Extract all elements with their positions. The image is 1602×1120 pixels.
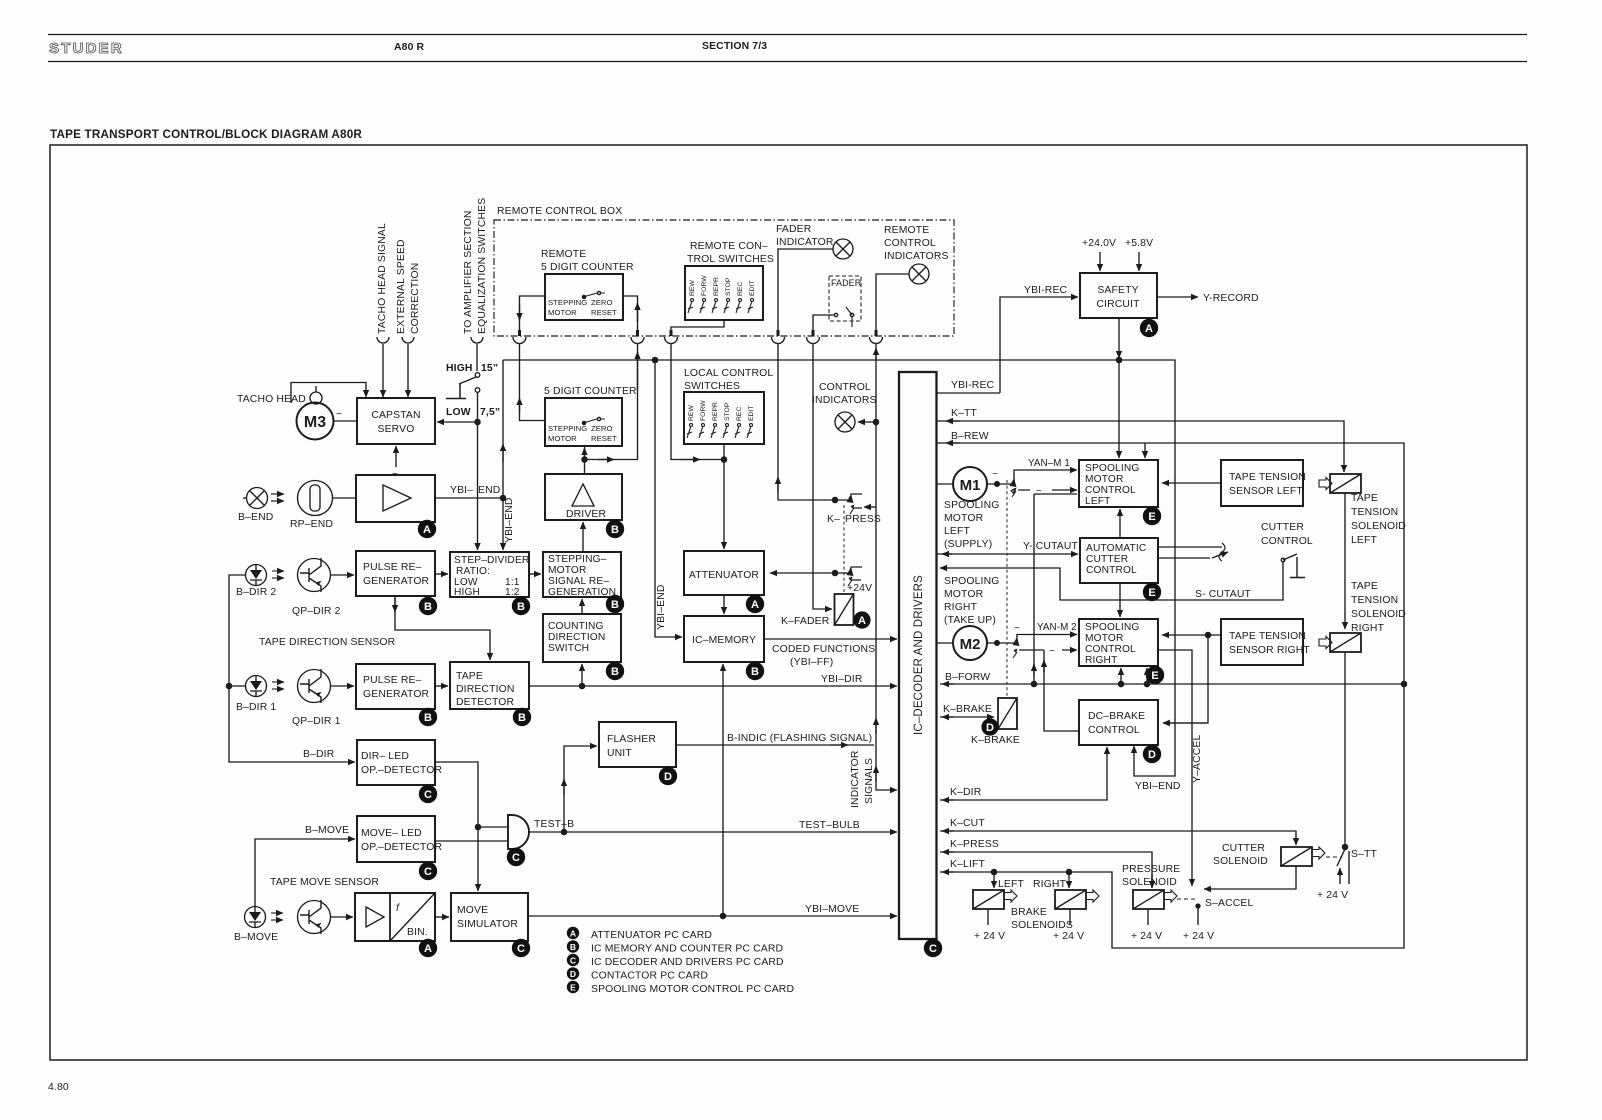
s-accel contact stub [1196,904,1200,908]
remote switch bank labels and contacts [689,275,756,296]
wire risers into spooling right bottom [1120,668,1122,684]
label TAPE MOVE SENSOR [270,877,379,888]
light arrows B-END to RP-END [271,493,284,495]
connector remote switches [665,337,678,344]
connector remote counter left [513,337,526,344]
label 15" [481,363,498,374]
local switch bank labels and contacts [688,400,755,421]
wire M2 to spooling control right [987,635,1077,644]
amplifier A (end sensor) [356,475,435,522]
svg-text:+ 24 V: + 24 V [1131,931,1162,942]
block TAPE DIRECTION DETECTOR [450,662,529,709]
wire B-DIR label [303,749,335,760]
svg-text:CUTTER: CUTTER [1222,843,1265,854]
wire fader switch to connector [813,315,834,334]
motor M2 [953,626,987,660]
dashed S-ACCEL link [1177,898,1196,900]
wire K-PRESS [940,852,1152,888]
connector fader switch line [807,337,820,344]
block ATTENUATOR [684,551,764,595]
badge A safety [1140,319,1158,337]
block 5 DIGIT COUNTER (local) [544,386,637,397]
badge B detector [513,708,531,726]
wire K-CUT [940,831,1296,845]
contact K-PRESS [851,494,862,508]
speed switch HIGH contact [475,373,480,378]
wire indicator signals vertical [876,344,897,790]
speed switch pole lead [446,384,466,399]
wire YBI-END amp output [435,497,503,499]
wire remote counter right lead [623,296,638,330]
wire YBI-DIR detector to decoder [529,685,897,687]
wire YBI-END bus [503,359,1119,361]
wire b-dir2 left bus [229,575,355,762]
wire k-press contact to indicator line [864,506,876,508]
svg-text:D: D [986,722,994,734]
badge C gate [507,848,525,866]
AND gate TEST-B [508,815,529,849]
light arrows b-move [271,912,283,914]
wire sensor right to spooling right [1162,634,1221,636]
node ybi-move to ic-memory branch [720,913,725,918]
badge E spooling left [1143,507,1161,525]
badge C ic-decoder [924,939,942,957]
connector tacho head signal [377,337,389,343]
svg-text:+ 24 V: + 24 V [974,931,1005,942]
wire qp-dir1 to pulse regen [331,685,355,687]
block DIR-LED OP.-DETECTOR [357,740,435,785]
wire +5.8V into safety [1138,252,1140,271]
connector remote counter right [631,337,644,344]
wire ext speed down to capstan servo [407,344,409,397]
badge D flasher [659,767,677,785]
badge A k-fader [853,611,870,628]
block STEPPING-MOTOR SIGNAL RE-GENERATION [543,552,621,597]
wire branch up to counting switch [581,664,583,686]
wire K-BRAKE [940,716,994,718]
wire qp-dir2 to pulse regen [331,574,355,576]
svg-text:S–TT: S–TT [1351,849,1378,860]
connector external speed correction [402,337,414,343]
badge A attenuator card [418,520,436,538]
wire YBI-REC decoder output [937,392,1001,394]
node b-forw risers [1118,681,1123,686]
header top rule [48,34,1527,36]
speed switch LOW contact [475,388,480,393]
wire mains into capstan servo bottom [395,446,397,467]
wire YBI-END down to step-divider [502,498,504,550]
S-TT switch [1337,849,1349,884]
node YBI-END junction [500,495,505,500]
node speed/capstan junction [475,419,480,424]
cutter solenoid [1281,847,1312,866]
light arrows b-dir2 [272,570,284,572]
svg-text:K–DIR: K–DIR [950,787,982,798]
wire counting switch to stepping regen [581,599,583,614]
svg-text:B–FORW: B–FORW [945,672,990,683]
wire LOW contact down to junction [477,392,479,422]
wire B-INDIC flasher to indicator line [676,744,874,746]
badge B stepping regen [606,595,624,613]
relay K-FADER [835,594,854,625]
wire bus down to ic-memory [655,360,682,637]
wire junction to capstan servo right [437,421,478,423]
badge C move simulator [512,939,530,957]
svg-text:LEFT: LEFT [998,879,1025,890]
block IC-DECODER AND DRIVERS [899,372,937,939]
wire YBI-MOVE to decoder [528,915,897,917]
svg-text:+ 24 V: + 24 V [1053,931,1084,942]
wire step divider to stepping regen [529,573,541,575]
label CUTTER CONTROL [1261,522,1313,547]
wire sensor left to spooling left [1162,482,1221,484]
wire bus corner down right side [1119,360,1175,776]
svg-text:+ 24 V: + 24 V [1183,931,1214,942]
svg-text:S–ACCEL: S–ACCEL [1205,898,1253,909]
wire feeds down into brake solenoids [993,872,995,888]
solenoid TAPE TENSION LEFT [1330,474,1361,493]
block DC-BRAKE CONTROL [1079,700,1158,745]
badge D dc-brake [1143,745,1161,763]
label TAPE DIRECTION SENSOR [259,637,396,648]
block DRIVER [545,474,622,520]
motor M1 [953,467,987,501]
wire RP-END to amplifier [333,497,357,499]
FADER switch dashed box [829,276,861,321]
motor M3 [297,403,334,440]
light arrows b-dir1 [272,681,284,683]
wire gate line down to move simulator [477,827,479,891]
node S-TT [1342,844,1347,849]
label LOW [446,407,471,418]
wire sensor right down to dc-brake [1163,635,1208,723]
reset switch glyph remote counter [583,293,605,297]
label TACHO HEAD [237,394,306,405]
wire fader connector down to k-fader [813,344,832,609]
wire cutter solenoid bottom to s-accel [1204,866,1296,889]
dashed link k-press to k-fader [843,505,845,592]
svg-text:SOLENOIDS: SOLENOIDS [1011,920,1073,931]
wire fader indicator to connector [778,249,833,334]
cutter control switch [1281,558,1285,562]
LED B-MOVE [245,907,266,928]
node b-dir junction [226,683,231,688]
wire solenoid right down to S-TT [1344,652,1346,847]
badge B counting switch [606,662,624,680]
wire tacho signal down to capstan servo [382,344,384,397]
phototransistor QP-DIR 1 [298,670,331,703]
wire B-REW across right [937,443,1405,684]
lamp CONTROL INDICATORS [812,382,877,406]
wire Y-ACCEL [1158,650,1192,886]
block SAFETY CIRCUIT [1080,273,1157,318]
label HIGH [446,363,473,374]
wire +24V into safety [1099,252,1101,271]
node attenuator feed junction [832,570,837,575]
badge E auto cutter [1143,583,1161,601]
wire dc-brake to spooling right phase [1044,650,1078,731]
wire counter junction right to remote connector [585,344,638,460]
LED B-DIR 1 [246,676,267,697]
block SPOOLING MOTOR CONTROL LEFT [1079,460,1158,507]
block COUNTING DIRECTION SWITCH [543,614,621,662]
wire S-CUTAUT [940,562,1283,600]
wire pulse regen output to step-divider [435,573,448,575]
header bottom rule [48,61,1527,63]
speed switch blade [459,377,476,384]
label 7,5" [480,407,500,418]
badge D k-brake [981,718,998,735]
svg-text:K–CUT: K–CUT [950,818,985,829]
wire amp/bin to move simulator [435,916,449,918]
block PULSE RE-GENERATOR (dir1) [356,664,435,709]
wire ybi-end riser crossing [1033,494,1035,684]
wire remote connector to junction [671,344,724,460]
wire YBI-REC into safety [1000,297,1078,393]
wire Y-CUTAUT decoder to auto cutter [937,553,1079,555]
photo resistor RP-END [298,481,333,516]
block SPOOLING MOTOR CONTROL RIGHT [1079,619,1158,666]
node local switches / connector-line junction [721,457,726,462]
badge B pulse regen 1 [419,708,437,726]
wire M3 to capstan servo [334,420,358,422]
node counter bottom junction [582,457,587,462]
lamp FADER INDICATOR [776,224,834,248]
wire YBI-END up to bus [502,360,504,498]
block REMOTE CONTROL SWITCHES [685,266,763,320]
LED B-DIR 2 [246,565,267,586]
label CUTTER SOLENOID [1213,843,1268,867]
solenoid TAPE TENSION RIGHT [1330,633,1361,652]
node bus junction [1116,357,1121,362]
block MOVE-LED OP.-DETECTOR [357,816,435,862]
phototransistor QP-DIR 2 [298,559,331,592]
connector to amplifier section [471,337,483,343]
svg-text:+ 24 V: + 24 V [1317,890,1348,901]
wire local counter bottom pin [584,446,586,474]
dashed S-TT link [1326,856,1342,858]
wire junction down to step-divider [477,422,479,550]
second phase input spooling left [1011,489,1016,497]
wire Y-RECORD output [1157,296,1198,298]
wire control indicators lamp feed [858,421,876,423]
second phase input spooling right [1013,652,1017,658]
wire move-led input [255,839,355,906]
wire remote indicators to connector [876,274,909,334]
block STEP-DIVIDER RATIO [450,552,529,597]
wire coded functions ic-memory to decoder [764,638,897,640]
labels +24.0V +5.8V [1082,238,1153,249]
block IC-MEMORY [684,616,764,662]
wire tacho head bracket to capstan top [291,383,366,404]
svg-text:CONTROL: CONTROL [1088,725,1140,736]
node test-b branch [561,829,566,834]
svg-text:Y–ACCEL: Y–ACCEL [1192,735,1203,783]
svg-text:K–BRAKE: K–BRAKE [943,704,992,715]
vertical label TACHO HEAD SIGNAL [377,223,388,334]
node indicator line lamp junction [873,419,878,424]
svg-text:BRAKE: BRAKE [1011,907,1047,918]
badge B ic-memory [746,662,764,680]
tacho head connector symbol [310,392,322,404]
node sensor right branch [1205,632,1210,637]
block LOCAL CONTROL SWITCHES [684,368,773,392]
contact +24V (attenuator) [851,567,862,580]
wire pulse regen 1 to detector [435,685,448,687]
brake solenoid right [1055,890,1086,909]
svg-text:SOLENOID: SOLENOID [1122,877,1177,888]
wire K-TT to tension solenoid left [937,421,1345,472]
vertical label YBI-END (ic-memory) [656,584,667,630]
wire spooling left bottom to auto cutter [1119,509,1121,538]
wire TEST-BULB gate to decoder [529,831,897,833]
vertical label YBI-END [504,497,515,543]
wire local counter left to remote connector [520,344,546,421]
badge B step divider [512,597,530,615]
svg-text:K–BRAKE: K–BRAKE [971,735,1020,746]
wire dc-brake right input [1163,722,1208,724]
wire K-FADER attenuator feed [770,572,851,574]
vertical label TO AMPLIFIER SECTION EQUALIZATION SWITCHES [463,198,488,334]
fader switch contacts [834,313,837,316]
wire pulse regen bottom to tape direction detector [395,596,490,660]
lamp REMOTE CONTROL INDICATORS [884,225,949,262]
vertical label EXTERNAL SPEED CORRECTION [396,239,421,334]
wire K-LIFT [940,684,1404,948]
block FLASHER UNIT [599,722,676,767]
svg-text:RIGHT: RIGHT [1033,879,1067,890]
wire transistor to amp/bin [331,916,354,918]
svg-text:D: D [1148,749,1156,761]
brake solenoid left [973,890,1004,909]
badge A amp/bin [419,939,437,957]
block TAPE TENSION SENSOR LEFT [1221,460,1303,506]
connector indicator signals line [870,337,883,344]
main diagram border frame [50,145,1527,1060]
wire B-FORW [940,683,1404,685]
remote control box dashed border [494,220,954,336]
wire test-b up to flasher [564,746,597,832]
svg-text:DC–BRAKE: DC–BRAKE [1088,711,1145,722]
wire M1 to spooling control left [987,470,1077,484]
block REMOTE 5 DIGIT COUNTER [545,274,623,320]
wire move-led out to gate [435,840,508,842]
dashed link m-contacts to k-brake [1006,480,1008,696]
wire local switches down to attenuator [723,444,725,549]
legend badges [567,927,794,995]
badge A attenuator [746,595,764,613]
wires auto cutter to cutter control actuator [1158,547,1222,558]
wire stepping regen to driver [582,522,584,552]
badge C move-led [419,862,437,880]
block PULSE RE-GENERATOR (dir2) [356,551,435,596]
wire remote counter left lead [520,296,546,330]
vertical label INDICATOR SIGNALS [850,750,875,808]
wire up to ic-memory bottom [722,664,724,916]
wire safety bottom to ybi-end bus [1118,318,1120,358]
phototransistor tape move [298,901,331,934]
badge C dir-led [419,785,437,803]
block AUTOMATIC CUTTER CONTROL [1080,538,1158,583]
node bus to ic-memory branch [652,357,657,362]
badge E spooling right [1146,666,1164,684]
wire B-REW branch into spooling left [1144,443,1146,458]
svg-text:K–LIFT: K–LIFT [950,859,985,870]
block CAPSTAN SERVO [357,398,435,444]
badge B driver [606,520,624,538]
svg-text:K–PRESS: K–PRESS [950,839,999,850]
pressure solenoid [1122,864,1180,888]
wire dir-led out to gate [435,762,508,827]
svg-text:PRESSURE: PRESSURE [1122,864,1180,875]
lamp B-END [247,488,268,509]
block TAPE TENSION SENSOR RIGHT [1221,619,1303,665]
connector fader lamp line [772,337,785,344]
wire lamp connector down to k-press contact [778,344,848,500]
wire solenoid left to solenoid right [1344,493,1346,629]
wire ybi-end drop into spooling left top [1118,360,1120,458]
block amplifier + f/BIN converter [355,893,435,941]
block MOVE SIMULATOR [451,893,528,941]
wire K-DIR [940,747,1107,800]
node brake solenoid feeds [991,869,996,874]
wire auto cutter down to spooling right top [1119,583,1121,617]
svg-text:SOLENOID: SOLENOID [1213,856,1268,867]
wire attenuator to ic-memory [723,595,725,614]
wire connector down to speed switch [476,344,478,371]
label B-MOVE [305,825,349,836]
badge B pulse regen 2 [419,597,437,615]
wire remote switches lead [671,320,724,330]
node k-press wire junction [832,497,837,502]
relay K-BRAKE [998,698,1017,729]
